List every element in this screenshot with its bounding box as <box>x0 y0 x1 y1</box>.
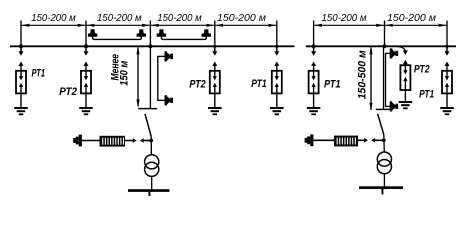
transformer T2 secondary circle <box>377 160 391 174</box>
svg-text:150 м: 150 м <box>118 61 130 86</box>
dimension arrows right span1 <box>314 24 383 27</box>
svg-text:150-200 м: 150-200 м <box>322 12 367 24</box>
dimension tie bar right <box>376 108 390 110</box>
dimension arrows span2 <box>87 24 150 27</box>
junction node tower2 <box>84 44 88 48</box>
cable wire from termination right <box>312 139 334 141</box>
disconnector blade right <box>378 114 384 135</box>
hook wire to PT2 (right) <box>398 47 406 53</box>
junction node cable/feeder <box>149 139 153 143</box>
svg-text:150-200 м: 150-200 м <box>217 12 266 24</box>
disconnector blade <box>145 114 151 137</box>
spark gap top (arrow+electrode) <box>165 52 172 61</box>
cable wire from termination <box>80 140 99 142</box>
wire transformer to busbar right <box>383 174 385 187</box>
feeder wire to transformer <box>150 137 152 156</box>
junction node cable/feeder right <box>382 138 386 142</box>
disconnector fixed contact bar <box>138 108 157 110</box>
protective gap bracket top stub right <box>385 52 390 54</box>
wire cable box to gap right <box>358 139 365 141</box>
tower extension line 1 <box>20 21 22 47</box>
busbar (left substation) <box>128 189 170 192</box>
shield cable span2 hook left <box>93 36 95 39</box>
tower extension line 4 <box>214 21 216 47</box>
junction node towerR3 <box>445 45 448 48</box>
svg-text:РТ2: РТ2 <box>414 63 430 75</box>
wire transformer to busbar <box>151 176 153 189</box>
arrester PT2 at tower2 <box>79 47 93 115</box>
dimension arrows span3 <box>151 24 214 27</box>
dimension line (right diagram) <box>314 24 447 26</box>
spark gap left arrow (right dia) <box>371 138 375 143</box>
shield cable span3 wire <box>163 38 204 40</box>
transformer T2 primary circle <box>377 152 391 166</box>
arrester PT1 at towerR1 <box>307 47 321 115</box>
cable box (hatched) <box>100 136 126 147</box>
shield cable span3 hook left <box>161 36 163 39</box>
junction node tower1 <box>19 44 23 48</box>
dimension line (left diagram) <box>21 24 277 26</box>
svg-text:РТ1: РТ1 <box>251 78 266 90</box>
insulator bell span3 left <box>157 30 165 36</box>
vertical dimension arrows <box>136 47 139 107</box>
insulator bell span2 right <box>137 30 145 36</box>
protective gap bracket top stub <box>157 55 165 57</box>
main overhead line (right diagram) <box>306 45 456 47</box>
junction node tower5 <box>275 45 278 48</box>
transformer T1 secondary circle <box>145 162 159 176</box>
spark gap left arrow <box>140 138 144 143</box>
vertical dimension "150-500 m" line <box>370 47 372 110</box>
transformer T1 primary circle <box>145 155 159 169</box>
shield cable span2 wire <box>94 38 139 40</box>
cable box (hatched) right <box>334 136 358 147</box>
dimension arrows span4 <box>216 24 276 27</box>
tower extension line 5 <box>276 21 278 47</box>
arrester PT1 at tower5 <box>270 47 284 115</box>
shield cable span3 hook right <box>205 36 207 39</box>
junction node towerR1 <box>312 44 316 48</box>
main overhead line (left diagram) <box>10 45 295 47</box>
arrester PT1 at towerR3 <box>440 47 454 115</box>
shield cable span2 hook right <box>140 36 142 39</box>
protective gap bracket (right) vertical <box>385 53 387 106</box>
dimension arrows right span2 <box>385 24 446 27</box>
wire cable box to gap <box>125 140 133 142</box>
spark gap top right <box>390 49 397 58</box>
svg-text:150-500 м: 150-500 м <box>356 50 368 99</box>
cable termination ground (right) <box>305 135 312 145</box>
busbar (right substation) <box>359 186 403 189</box>
protective gap bracket bottom stub <box>157 99 165 101</box>
wire gap to feeder <box>143 140 151 142</box>
tower extension line R1 <box>313 21 315 47</box>
tower extension line R2 (feeder) <box>384 21 386 47</box>
substation feeder wire (right) <box>383 46 385 109</box>
svg-text:РТ1: РТ1 <box>32 67 46 79</box>
protective gap bracket (left) vertical <box>157 56 159 100</box>
busbar stub right <box>382 189 384 194</box>
svg-text:РТ2: РТ2 <box>59 86 77 98</box>
protective gap bracket bottom stub right <box>385 105 390 107</box>
cable termination ground (left) <box>74 135 81 145</box>
wire gap to feeder right <box>375 139 384 141</box>
svg-text:150-200 м: 150-200 м <box>97 12 142 24</box>
svg-text:РТ2: РТ2 <box>189 78 205 90</box>
feeder wire to transformer right <box>383 135 386 153</box>
junction node tower3 <box>148 44 152 48</box>
arrester PT2 at tower4 <box>208 47 222 115</box>
spark gap right arrow <box>133 138 137 143</box>
tower extension line R3 <box>446 21 448 47</box>
arrester PT1 at tower1 <box>14 47 28 115</box>
busbar stub <box>149 192 151 196</box>
vertical dimension arrows right <box>369 47 372 111</box>
insulator bell span2 left <box>89 30 97 36</box>
svg-text:150-200 м: 150-200 м <box>31 12 76 24</box>
spark gap right arrow (right dia) <box>364 138 368 143</box>
arrester PT2 (right, near substation) <box>399 51 413 110</box>
junction node tower4 <box>213 45 216 48</box>
spark gap bottom (arrow+electrode) <box>165 96 172 105</box>
tower extension line 2 <box>85 21 87 47</box>
insulator bell span3 right <box>202 30 210 36</box>
spark gap bottom right <box>390 102 397 111</box>
svg-text:150-200 м: 150-200 м <box>387 12 436 24</box>
svg-text:РТ1: РТ1 <box>324 78 341 90</box>
svg-text:РТ1: РТ1 <box>419 89 434 101</box>
substation feeder wire (left) <box>149 46 151 108</box>
dimension arrows span1 <box>22 24 85 27</box>
tower extension line 3 / substation feeder upper <box>149 21 151 47</box>
vertical dimension "Menee 150 m" line <box>137 47 139 106</box>
junction node towerR2 <box>383 44 387 48</box>
svg-text:150-200 м: 150-200 м <box>157 12 202 24</box>
